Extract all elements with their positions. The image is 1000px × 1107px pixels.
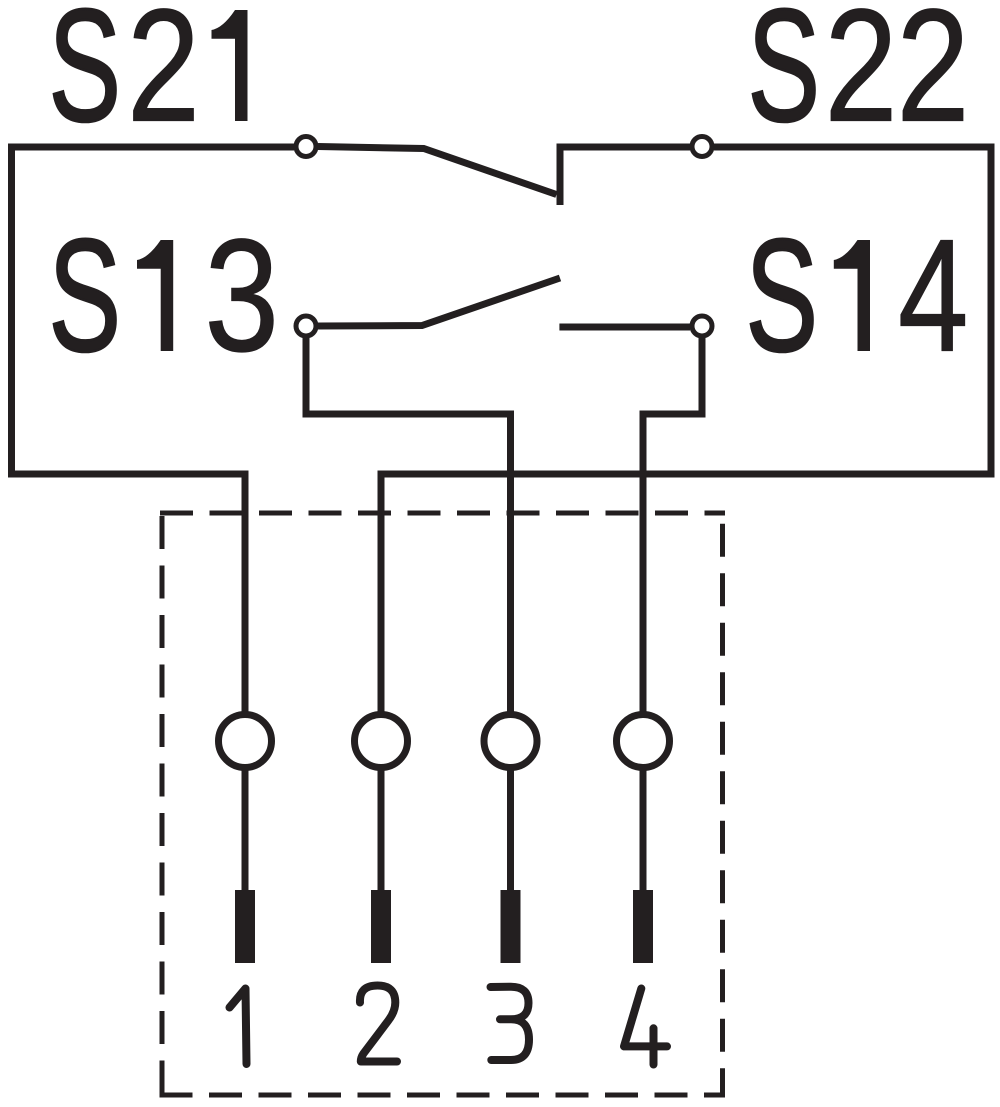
svg-text:S: S xyxy=(746,205,818,384)
svg-text:S: S xyxy=(49,0,121,154)
switch blade S13-S14 (NO contact, open) xyxy=(318,278,560,326)
pin number 3 xyxy=(491,987,530,1060)
label S21 xyxy=(49,0,248,155)
pin number 2 xyxy=(360,986,397,1062)
svg-text:2: 2 xyxy=(897,0,970,155)
pin end bar 3 xyxy=(501,890,521,963)
wire S14 down to pin 4 xyxy=(643,337,702,713)
switch blade S21-S22 (NC contact) xyxy=(318,147,557,195)
connector circle pin 1 xyxy=(219,715,272,768)
pin number 4 xyxy=(624,989,667,1065)
wire below pin 3 circle xyxy=(507,770,514,893)
label S22 xyxy=(748,0,970,155)
wire S21 left edge down to pin 1 xyxy=(12,147,295,712)
terminal circle S21 xyxy=(296,137,316,157)
wire S22 right edge down to pin 2 xyxy=(381,147,991,712)
wire below pin 2 circle xyxy=(378,770,385,893)
label S14 xyxy=(746,205,969,385)
wire fixed contact to S14 terminal xyxy=(559,324,690,331)
terminal circle S22 xyxy=(692,137,712,157)
terminal circle S14 xyxy=(692,316,712,336)
pin end bar 4 xyxy=(633,890,653,963)
dashed connector box xyxy=(160,513,726,1098)
connector circle pin 2 xyxy=(355,715,408,768)
wire below pin 1 circle xyxy=(242,770,249,893)
svg-text:S: S xyxy=(748,0,820,154)
connector circle pin 3 xyxy=(484,715,537,768)
svg-text:4: 4 xyxy=(898,205,968,385)
pin end bar 2 xyxy=(371,890,391,963)
svg-text:3: 3 xyxy=(205,206,280,385)
wire S13 down to pin 3 xyxy=(306,337,511,713)
terminal circle S13 xyxy=(296,316,316,336)
wire below pin 4 circle xyxy=(640,770,647,893)
wire bar to S22 terminal xyxy=(560,144,690,151)
svg-text:2: 2 xyxy=(825,0,898,155)
pin number 1 xyxy=(230,989,247,1065)
pin end bar 1 xyxy=(235,890,255,963)
label S13 xyxy=(49,205,279,385)
connector circle pin 4 xyxy=(617,715,670,768)
svg-text:S: S xyxy=(49,205,121,384)
svg-text:2: 2 xyxy=(127,0,200,155)
fixed contact bar xyxy=(557,144,564,206)
